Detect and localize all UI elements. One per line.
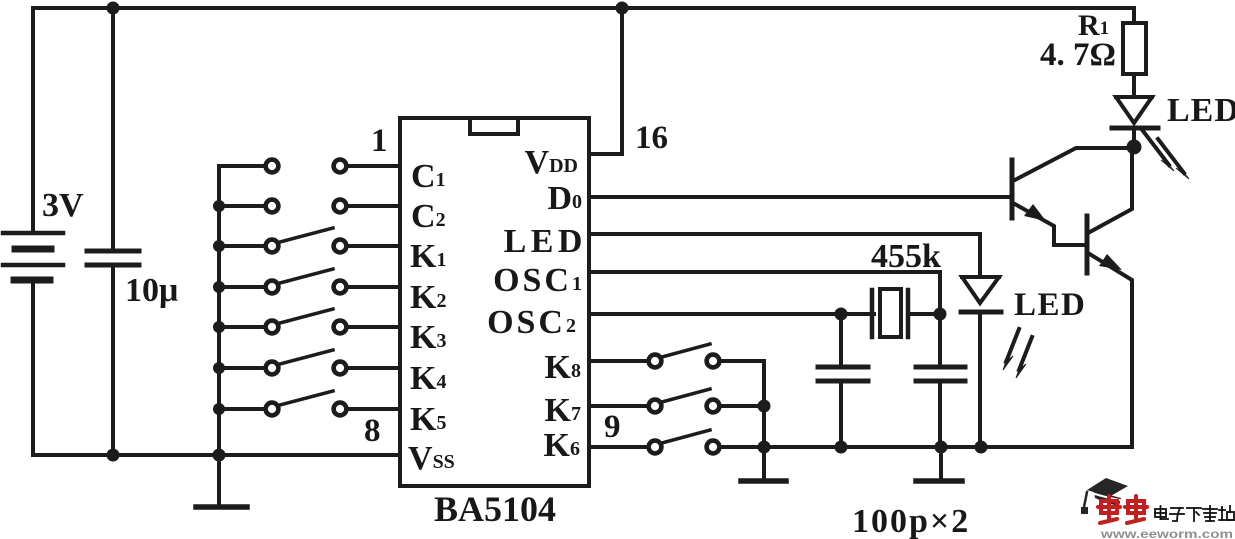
IC notch (470, 120, 518, 134)
wire: battery positive lead (left vertical) (31, 8, 35, 232)
svg-text:BA5104: BA5104 (434, 489, 556, 529)
switch row K4 (219, 350, 400, 374)
switch row K3 (219, 309, 400, 333)
node: resonator left junction (835, 308, 848, 321)
svg-text:10μ: 10μ (125, 272, 178, 309)
ground: below switch common (762, 447, 766, 479)
transistor Q2 emitter (1088, 253, 1132, 447)
switch row K1 (219, 228, 400, 252)
wire: bottom ground rail (left) (33, 453, 400, 457)
node: LED cathode / collectors junction (1127, 140, 1142, 155)
wire: LED pin to indicator LED (589, 234, 980, 276)
watermark: graduation cap icon (1081, 478, 1128, 514)
wire: D0 output to Q1 base (589, 195, 1010, 199)
svg-text:8: 8 (364, 413, 381, 449)
capacitor 10u (87, 251, 139, 265)
wire: top supply rail (33, 6, 1134, 10)
node: cap to top rail junction (107, 2, 120, 15)
ground: below right 100p (939, 447, 943, 479)
transistor Q1 base bar (1010, 160, 1015, 218)
wire: battery negative lead (31, 282, 35, 455)
resistor R1 (1132, 8, 1136, 23)
svg-text:16: 16 (635, 120, 668, 156)
wire: OSC2 to resonator (589, 312, 874, 316)
wire: bottom rail (right) (720, 445, 1132, 449)
light arrows of indicator LED (1003, 329, 1032, 378)
node: VDD junction on top rail (616, 2, 629, 15)
light arrows of infrared LED (1143, 131, 1189, 179)
LED indicator (visible) (961, 277, 1001, 447)
ground: below key bus (217, 455, 221, 506)
switch row C1 (219, 160, 400, 173)
wire: key matrix common bus (vertical) (217, 166, 221, 455)
svg-text:OSC1: OSC1 (493, 262, 585, 299)
resonator 455k (872, 289, 940, 337)
node: right 100p to rail (935, 441, 948, 454)
transistor Q1 emitter (1013, 203, 1086, 245)
wire: OSC1 to resonator (589, 272, 940, 312)
wire: capacitor top lead (111, 8, 115, 250)
capacitor 100p (left) (818, 314, 868, 446)
switch row K8 (589, 344, 764, 367)
node: resonator right junction (934, 308, 947, 321)
wire: VDD pin 16 to top rail (589, 8, 622, 154)
svg-text:www.eeworm.com: www.eeworm.com (1100, 529, 1233, 539)
svg-text:3V: 3V (42, 187, 84, 224)
battery 3V (3, 233, 63, 280)
node: left 100p to rail (835, 441, 848, 454)
node: bus junction dots (213, 200, 226, 462)
svg-text:4. 7Ω: 4. 7Ω (1040, 37, 1116, 73)
svg-text:100p×2: 100p×2 (852, 503, 970, 539)
switch row K5 (219, 391, 400, 415)
wire: capacitor bottom lead (111, 266, 115, 455)
svg-text:9: 9 (604, 409, 621, 445)
transistor Q1 collector (1013, 148, 1133, 181)
switch row K6 (589, 430, 719, 453)
svg-text:OSC2: OSC2 (487, 304, 579, 341)
capacitor 100p (right) (916, 314, 965, 446)
transistor Q2 base bar (1085, 216, 1090, 273)
wire: switch common vertical (762, 361, 766, 447)
switch row C2 (219, 200, 400, 213)
switch row K2 (219, 269, 400, 293)
svg-text:LED: LED (1014, 287, 1086, 323)
watermark: chongchong red characters (1098, 496, 1147, 523)
node: cap to bottom rail junction (107, 449, 120, 462)
svg-text:LED: LED (504, 223, 587, 260)
node: LED cathode to rail (975, 441, 988, 454)
IC U1 BA5104 body (400, 118, 589, 486)
node: common to rail (758, 441, 771, 454)
LED infrared (top right) (1112, 97, 1158, 148)
svg-text:1: 1 (371, 123, 388, 159)
transistor Q2 collector (1088, 148, 1132, 233)
watermark: site name characters (1155, 506, 1234, 521)
node: K7 common junction (758, 400, 771, 413)
svg-text:455k: 455k (871, 238, 941, 275)
switch row K7 (589, 389, 764, 412)
svg-text:LED: LED (1167, 92, 1235, 129)
